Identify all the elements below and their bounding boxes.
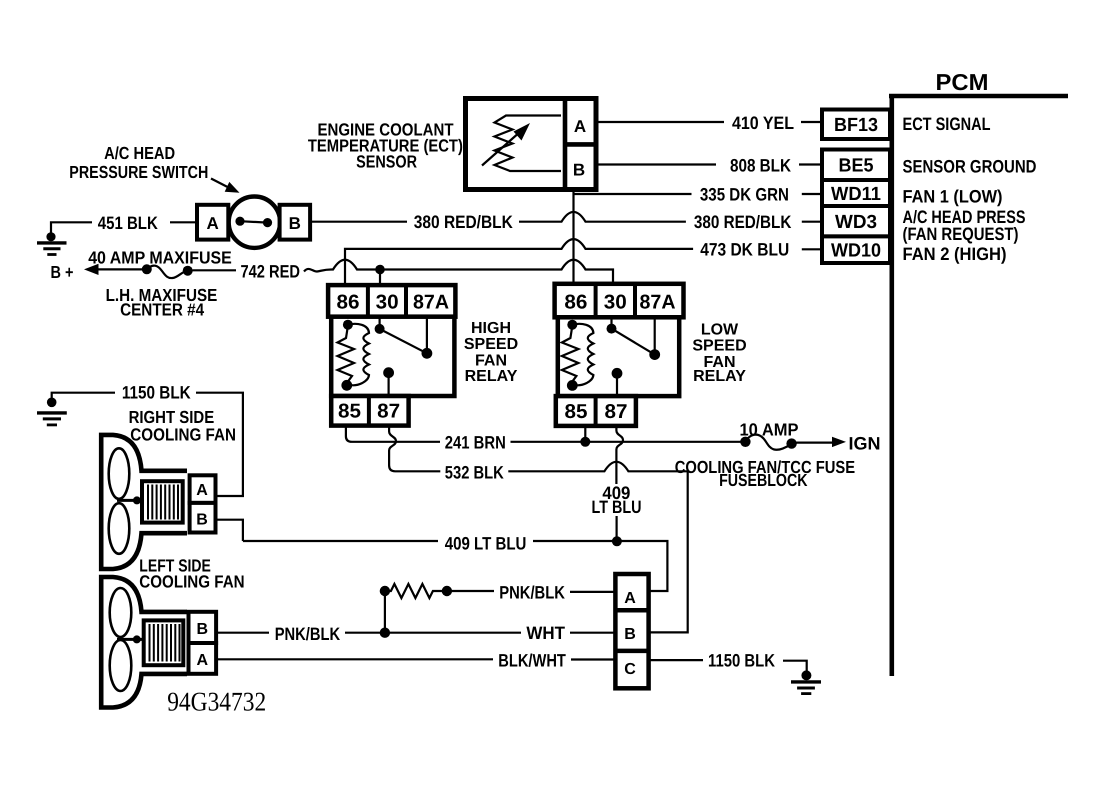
relay 2 switch	[607, 317, 661, 360]
svg-text:87: 87	[377, 401, 400, 423]
relay 1 (high speed) terminals 86 30 87A	[328, 285, 455, 317]
svg-text:94G34732: 94G34732	[167, 687, 266, 717]
svg-text:BF13: BF13	[834, 115, 878, 136]
right fan blades	[109, 448, 142, 553]
PCM bracket	[889, 94, 1068, 676]
ground (1150 BLK lower)	[791, 670, 821, 693]
svg-text:86: 86	[337, 292, 360, 314]
svg-text:SPEED: SPEED	[692, 337, 746, 354]
svg-text:335 DK GRN: 335 DK GRN	[700, 185, 789, 205]
10 amp fuse element	[740, 435, 797, 450]
svg-text:1150 BLK: 1150 BLK	[122, 382, 191, 402]
left fan connector A	[189, 643, 217, 674]
relay 1 coil	[338, 320, 370, 391]
svg-text:PNK/BLK: PNK/BLK	[275, 624, 340, 644]
ground (451 BLK)	[37, 232, 67, 254]
svg-text:LT BLU: LT BLU	[592, 497, 642, 517]
relay 2 pin 87 stub	[612, 368, 623, 396]
ground (1150 BLK upper)	[37, 398, 67, 425]
wire resistor drop to WHT junction	[380, 591, 390, 638]
svg-text:380 RED/BLK: 380 RED/BLK	[414, 212, 513, 232]
wire PNK/BLK to pin A	[570, 591, 615, 593]
connector BF13	[822, 110, 890, 140]
svg-text:532 BLK: 532 BLK	[445, 462, 504, 482]
right cooling fan shroud	[101, 435, 187, 569]
wire 742 RED	[304, 260, 613, 285]
svg-text:IGN: IGN	[849, 433, 881, 453]
svg-text:FAN: FAN	[475, 353, 507, 370]
svg-text:A: A	[624, 590, 636, 607]
svg-text:COOLING FAN: COOLING FAN	[130, 424, 236, 444]
wire C to 1150 BLK ground	[649, 660, 807, 671]
junction relay2 85 on 241 BRN	[580, 426, 590, 447]
wire 410 YEL	[596, 121, 822, 123]
wire 380 RED/BLK	[310, 212, 822, 222]
svg-text:SPEED: SPEED	[464, 336, 518, 353]
B+ arrow	[84, 264, 147, 275]
svg-text:C: C	[624, 661, 636, 678]
label HIGH SPEED FAN RELAY	[464, 320, 518, 385]
svg-text:RELAY: RELAY	[693, 368, 746, 385]
svg-text:PNK/BLK: PNK/BLK	[499, 582, 565, 602]
svg-text:410 YEL: 410 YEL	[732, 113, 794, 133]
left fan connector B	[189, 612, 217, 643]
connector block A/B/C	[615, 574, 648, 688]
pointer arrow to switch	[211, 179, 240, 193]
svg-text:A: A	[206, 214, 218, 233]
wire 335 DK GRN vertical (ECT to low relay 86)	[572, 190, 574, 284]
svg-text:1150 BLK: 1150 BLK	[708, 650, 775, 670]
svg-text:BE5: BE5	[839, 156, 874, 177]
A/C head pressure switch	[197, 197, 310, 248]
svg-text:808 BLK: 808 BLK	[730, 156, 791, 176]
relay 2 (low speed) terminals 86 30 87A	[555, 284, 684, 318]
svg-text:86: 86	[564, 291, 587, 313]
svg-text:A: A	[197, 652, 209, 669]
svg-text:WD11: WD11	[831, 184, 881, 205]
wire 241 BRN (relay1 85 to fuse)	[346, 426, 741, 442]
IGN arrow	[797, 437, 847, 447]
svg-text:B: B	[573, 161, 585, 180]
relay 1 terminals 85 87	[331, 396, 408, 426]
right fan motor	[142, 481, 183, 522]
svg-text:FAN 1 (LOW): FAN 1 (LOW)	[903, 187, 1003, 207]
wire relay2 87 down (409 LT BLU drop)	[616, 426, 623, 541]
resistor (fan dropping)	[380, 584, 494, 598]
connector WD11	[822, 180, 890, 206]
svg-text:87A: 87A	[640, 291, 676, 313]
wire 532 BLK (relay1 87, S-jog over 241 BRN)	[389, 426, 688, 633]
left cooling fan shroud	[101, 577, 187, 708]
svg-text:473 DK BLU: 473 DK BLU	[700, 239, 789, 259]
wire 409 LT BLU horizontal	[243, 536, 668, 591]
right fan connector B	[190, 503, 216, 533]
svg-text:85: 85	[338, 401, 361, 423]
left fan motor	[144, 620, 184, 665]
label LOW SPEED FAN RELAY	[692, 321, 746, 385]
right fan connector A	[190, 475, 216, 503]
svg-text:241 BRN: 241 BRN	[445, 433, 506, 453]
svg-text:B: B	[289, 214, 301, 233]
svg-text:87A: 87A	[413, 292, 449, 314]
svg-text:B: B	[624, 626, 636, 643]
svg-text:451 BLK: 451 BLK	[98, 213, 158, 233]
svg-text:30: 30	[604, 291, 627, 313]
svg-text:COOLING FAN: COOLING FAN	[139, 572, 244, 592]
wire 473 DK BLU	[345, 239, 822, 285]
wire left fan B / PNK/BLK / WHT	[216, 632, 615, 634]
relay 2 terminals 85 87	[556, 396, 636, 426]
svg-text:WD3: WD3	[835, 212, 877, 233]
relay 1 body	[331, 317, 454, 396]
wire 808 BLK	[596, 163, 822, 165]
connector WD3	[822, 206, 890, 236]
svg-text:WD10: WD10	[831, 240, 881, 261]
svg-text:B +: B +	[51, 262, 74, 282]
wire 1150 BLK (upper)	[52, 393, 243, 496]
svg-text:A: A	[574, 117, 586, 136]
svg-text:87: 87	[605, 401, 628, 423]
wire left fan A / BLK/WHT	[216, 658, 615, 660]
left fan blades	[110, 588, 144, 691]
svg-text:SENSOR GROUND: SENSOR GROUND	[903, 157, 1037, 177]
svg-text:FUSEBLOCK: FUSEBLOCK	[719, 470, 808, 490]
40 amp maxifuse element	[142, 264, 236, 278]
svg-text:BLK/WHT: BLK/WHT	[498, 650, 566, 670]
wire 335 DK GRN horizontal	[574, 193, 823, 195]
svg-text:380 RED/BLK: 380 RED/BLK	[694, 212, 792, 232]
wire right fan B to 409 LT BLU	[216, 520, 243, 541]
svg-text:A: A	[196, 482, 208, 499]
svg-text:85: 85	[565, 401, 588, 423]
svg-text:30: 30	[376, 292, 399, 314]
svg-text:CENTER #4: CENTER #4	[120, 300, 204, 320]
svg-text:SENSOR: SENSOR	[356, 151, 417, 171]
svg-text:B: B	[197, 621, 209, 638]
relay 2 coil	[562, 320, 594, 391]
svg-text:FAN 2 (HIGH): FAN 2 (HIGH)	[903, 244, 1007, 264]
svg-text:WHT: WHT	[526, 623, 565, 643]
svg-text:PCM: PCM	[936, 69, 989, 95]
connector WD10	[822, 236, 890, 263]
svg-text:ECT SIGNAL: ECT SIGNAL	[903, 114, 991, 134]
svg-text:B: B	[196, 512, 208, 529]
svg-text:HIGH: HIGH	[471, 320, 511, 337]
svg-text:742 RED: 742 RED	[241, 262, 301, 282]
thermistor arrow	[482, 123, 530, 166]
ECT sensor box	[466, 99, 597, 190]
svg-text:10 AMP: 10 AMP	[740, 420, 799, 440]
svg-text:(FAN REQUEST): (FAN REQUEST)	[903, 224, 1019, 244]
svg-text:PRESSURE SWITCH: PRESSURE SWITCH	[69, 162, 208, 182]
svg-text:RELAY: RELAY	[465, 368, 518, 385]
relay 1 switch	[375, 317, 433, 359]
relay 2 body	[558, 317, 679, 396]
relay 1 pin 87 stub	[383, 367, 394, 396]
connector BE5	[822, 150, 890, 181]
thermistor (ECT)	[495, 116, 562, 172]
svg-text:LOW: LOW	[701, 321, 739, 338]
svg-text:409 LT BLU: 409 LT BLU	[445, 534, 527, 554]
svg-text:A/C HEAD: A/C HEAD	[104, 143, 175, 163]
svg-text:40 AMP MAXIFUSE: 40 AMP MAXIFUSE	[88, 247, 232, 267]
wire 451 BLK	[51, 222, 197, 233]
